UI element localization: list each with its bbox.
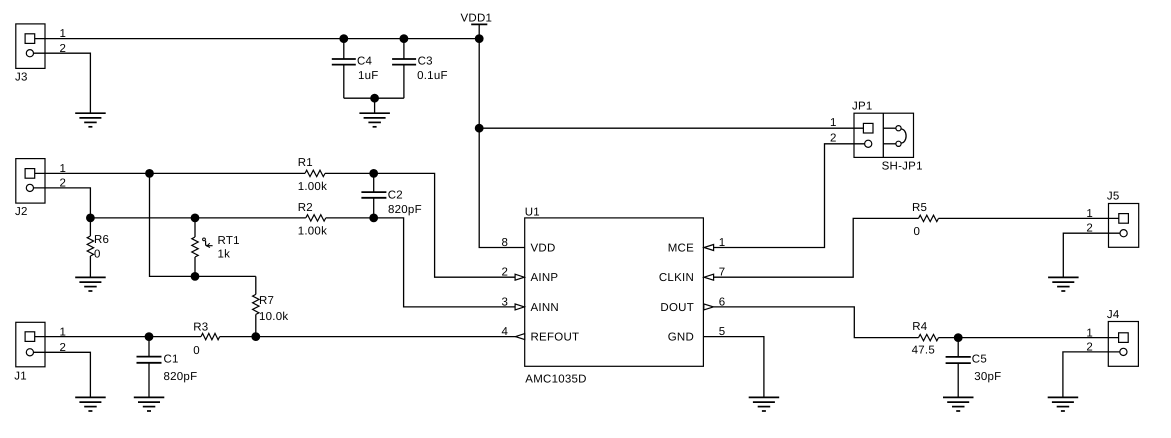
pin 6 arrow [704,304,714,310]
svg-text:R2: R2 [298,202,313,214]
svg-text:J4: J4 [1107,309,1120,321]
node junction R7 bottom [251,332,260,341]
svg-text:1uF: 1uF [358,70,379,82]
svg-text:REFOUT: REFOUT [531,332,580,344]
pin 1 arrow [704,245,714,251]
svg-text:1: 1 [1086,328,1093,340]
svg-text:AMC1035D: AMC1035D [525,373,586,385]
svg-text:1: 1 [60,163,67,175]
ground under J5 [1048,277,1079,291]
ground under R6 [75,277,106,291]
svg-text:U1: U1 [525,206,540,218]
svg-text:1.00k: 1.00k [298,226,327,238]
svg-text:GND: GND [668,332,694,344]
svg-text:1: 1 [60,326,67,338]
svg-text:VDD1: VDD1 [461,13,493,25]
svg-text:1.00k: 1.00k [298,181,327,193]
svg-text:R4: R4 [912,321,928,333]
wire C2 bottom to AINN [374,218,515,307]
svg-text:J3: J3 [15,72,28,84]
wire lower net to R2 [90,217,305,219]
wire J2 net down to R7 [150,173,256,276]
wire J4 pin2 to ground [1063,352,1121,398]
pin 2 arrow [515,274,524,280]
resistor R1 [305,170,325,176]
pin 7 arrow [704,274,714,280]
capacitor C2 [361,173,386,218]
power symbol VDD1 [471,24,487,38]
svg-text:1: 1 [1086,208,1093,220]
svg-text:1k: 1k [218,249,231,261]
ground under J1 [75,397,106,411]
svg-text:2: 2 [830,132,837,144]
svg-text:47.5: 47.5 [912,345,935,357]
node junction C2 top [369,169,378,178]
node junction C4 top [339,34,348,43]
svg-text:CLKIN: CLKIN [659,272,694,284]
svg-text:J5: J5 [1107,190,1120,202]
svg-text:DOUT: DOUT [660,302,694,314]
svg-text:8: 8 [502,237,509,249]
svg-text:0.1uF: 0.1uF [417,70,448,82]
pin 3 arrow [515,304,524,310]
svg-text:AINP: AINP [531,272,559,284]
svg-text:2: 2 [1086,222,1093,234]
wire J2 pin1 to R1 [30,172,305,174]
svg-text:R7: R7 [259,295,274,307]
svg-text:R1: R1 [298,157,313,169]
svg-text:J1: J1 [14,371,27,383]
svg-text:10.0k: 10.0k [259,311,288,323]
wire R1 to C2 top [325,172,374,174]
svg-text:1: 1 [719,237,726,249]
node junction R6 top [86,214,95,223]
connector J5 [1109,204,1139,248]
svg-text:820pF: 820pF [164,371,198,383]
pin 4 arrow [516,334,525,340]
svg-text:JP1: JP1 [852,101,873,113]
node junction VDD to JP1 [475,124,484,133]
wire J1 pin1 REFOUT net [30,336,201,338]
node junction VDD1 [475,34,484,43]
svg-text:4: 4 [502,326,509,338]
svg-text:1: 1 [830,117,837,129]
wire U1 GND to ground [703,337,764,398]
wire R5 to J5 [939,217,1121,219]
node junction RT1 top [191,214,200,223]
svg-text:2: 2 [60,178,67,190]
svg-text:3: 3 [502,296,509,308]
wire J5 pin2 to ground [1063,233,1121,277]
resistor R4 [919,334,939,340]
svg-text:SH-JP1: SH-JP1 [882,161,923,173]
wire C2 top to AINP [374,173,515,277]
resistor R3 [201,333,220,339]
svg-text:C3: C3 [418,56,433,68]
wire J2 pin2 down [30,188,90,218]
node junction C2 bottom [369,214,378,223]
wire JP1 pin 2 to U1 MCE [714,144,866,248]
resistor R7 [253,276,259,336]
svg-text:820pF: 820pF [388,204,422,216]
svg-text:C5: C5 [972,353,987,365]
node junction C1 [145,332,154,341]
wire CLKIN to R5 [714,218,919,277]
node junction C5 [954,333,963,342]
ground under J3 [75,113,106,127]
connector J1 [16,322,45,367]
connector J3 [16,24,45,69]
svg-text:C4: C4 [357,56,373,68]
wire VDD junction to JP1 pin 1 [479,127,866,129]
resistor R6 [87,218,93,278]
svg-text:R3: R3 [193,322,208,334]
ground under C5 [943,397,974,411]
wire J1 pin2 to ground [30,352,90,397]
svg-text:0: 0 [914,226,921,238]
svg-text:RT1: RT1 [218,235,240,247]
svg-text:C1: C1 [164,353,179,365]
connector J4 [1108,322,1138,367]
node junction RT1 bottom [191,272,200,281]
thermistor RT1 [192,218,213,277]
capacitor C5 [946,338,971,398]
connector J2 [16,159,45,204]
svg-text:2: 2 [60,342,67,354]
svg-text:2: 2 [60,43,67,55]
connector JP1 [854,113,914,157]
ground under C1 [134,397,165,411]
svg-text:R5: R5 [912,202,927,214]
svg-text:AINN: AINN [531,302,559,314]
svg-text:R6: R6 [94,234,109,246]
svg-text:0: 0 [94,249,101,261]
wire VDD1 vertical down to U1 pin 8 [479,39,525,248]
svg-text:1: 1 [60,28,67,40]
wire R4 to J4 [939,337,1121,339]
wire DOUT to R4 [713,307,918,338]
svg-text:VDD: VDD [531,243,556,255]
ground under C4 C3 [359,113,390,127]
wire R2 to C2 bottom [326,217,374,219]
wire J3 pin2 to ground [30,53,90,113]
capacitor C3 [392,39,416,99]
wire R3 to REFOUT [220,336,516,338]
wire caps junction to ground [374,98,376,113]
svg-text:2: 2 [1086,341,1093,353]
ground under U1 GND [749,397,780,411]
ground under J4 [1048,397,1079,411]
svg-text:C2: C2 [388,190,403,202]
wire net VDD1 top from J3 pin1 to VDD junction [30,38,479,40]
svg-text:2: 2 [502,267,509,279]
resistor R2 [306,215,326,221]
resistor R5 [919,215,939,221]
svg-text:MCE: MCE [668,243,694,255]
capacitor C1 [137,337,162,398]
node junction caps ground [370,94,379,103]
node junction C3 top [400,34,409,43]
op-amp U1 body [525,218,704,366]
svg-text:0: 0 [193,345,200,357]
svg-text:J2: J2 [15,206,28,218]
svg-text:30pF: 30pF [974,371,1001,383]
node junction J2 pin1 [145,169,154,178]
wire C4 bottom to C3 bottom [344,97,404,99]
capacitor C4 [332,39,356,99]
